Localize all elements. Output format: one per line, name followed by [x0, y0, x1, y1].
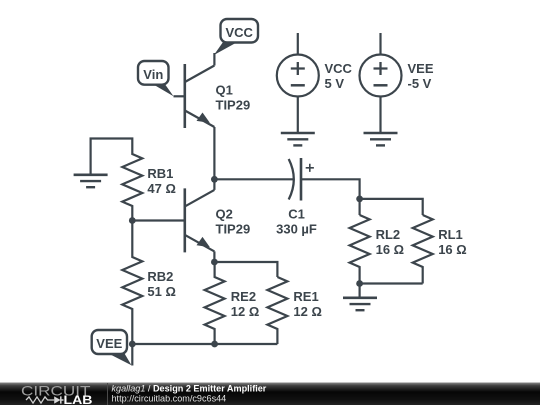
wire [360, 199, 423, 215]
wire emitter of Q2 [213, 251, 215, 262]
wire [360, 282, 423, 284]
svg-text:RE1: RE1 [293, 289, 318, 304]
svg-text:Q1: Q1 [216, 83, 233, 98]
wire collector of Q1 [213, 53, 215, 66]
svg-text:5 V: 5 V [325, 76, 345, 91]
svg-text:kgallag1 / Design 2 Emitter Am: kgallag1 / Design 2 Emitter Amplifier [112, 383, 267, 393]
wire [131, 315, 133, 366]
svg-text:47 Ω: 47 Ω [147, 181, 176, 196]
resistor RL2 [350, 215, 405, 284]
voltage source V2 VEE -5V [360, 33, 434, 133]
net flag VCC [214, 19, 258, 55]
svg-text:RL2: RL2 [376, 227, 401, 242]
node emitter rail [211, 259, 218, 266]
wire [91, 139, 133, 175]
wire base of Q1 [174, 95, 184, 97]
wire collector of Q2 [213, 179, 215, 190]
svg-text:VCC: VCC [225, 25, 253, 40]
wire [214, 178, 293, 180]
svg-text:-5 V: -5 V [408, 76, 432, 91]
svg-text:51 Ω: 51 Ω [147, 284, 176, 299]
wire emitter of Q1 [213, 127, 215, 179]
node VEE rail [129, 341, 136, 348]
wire [359, 284, 361, 298]
svg-text:VEE: VEE [96, 336, 122, 351]
wire [301, 179, 360, 215]
svg-text:12 Ω: 12 Ω [293, 304, 322, 319]
svg-text:Q2: Q2 [216, 207, 233, 222]
transistor Q1 TIP29 [185, 64, 250, 128]
svg-text:RE2: RE2 [231, 289, 256, 304]
ground [74, 175, 108, 187]
resistor RE2 [205, 262, 260, 344]
wire bottom rail [132, 343, 277, 345]
capacitor C1 330uF [276, 158, 317, 237]
svg-text:TIP29: TIP29 [216, 98, 251, 113]
svg-text:TIP29: TIP29 [216, 222, 251, 237]
ground [281, 133, 315, 145]
footer bar [0, 383, 540, 406]
svg-text:C1: C1 [288, 207, 305, 222]
svg-text:RB2: RB2 [147, 269, 173, 284]
CircuitLab logo [21, 383, 108, 407]
ground [343, 298, 377, 310]
svg-text:12 Ω: 12 Ω [231, 304, 259, 319]
svg-text:16 Ω: 16 Ω [376, 242, 405, 257]
net flag Vin [138, 61, 174, 96]
svg-text:http://circuitlab.com/c9c6s44: http://circuitlab.com/c9c6s44 [112, 394, 227, 404]
wire [214, 262, 277, 277]
node [356, 280, 363, 287]
svg-text:RB1: RB1 [147, 166, 173, 181]
svg-text:LAB: LAB [64, 395, 93, 405]
node base of Q2 [129, 217, 136, 224]
svg-text:VCC: VCC [325, 61, 353, 76]
svg-text:RL1: RL1 [438, 227, 463, 242]
svg-text:330 µF: 330 µF [276, 222, 317, 237]
node output [211, 176, 218, 183]
resistor RL1 [413, 215, 467, 284]
node [211, 341, 218, 348]
resistor RE1 [267, 277, 322, 344]
voltage source V1 VCC 5V [277, 33, 353, 133]
net flag VEE [92, 330, 132, 365]
resistor RB2 [122, 251, 176, 315]
svg-text:Vin: Vin [143, 67, 163, 82]
transistor Q2 TIP29 [185, 188, 250, 252]
resistor RB1 [122, 148, 176, 212]
svg-text:16 Ω: 16 Ω [438, 242, 467, 257]
wire [131, 212, 133, 251]
svg-text:VEE: VEE [408, 61, 434, 76]
ground [364, 133, 398, 145]
node [356, 196, 363, 203]
wire [132, 219, 184, 221]
